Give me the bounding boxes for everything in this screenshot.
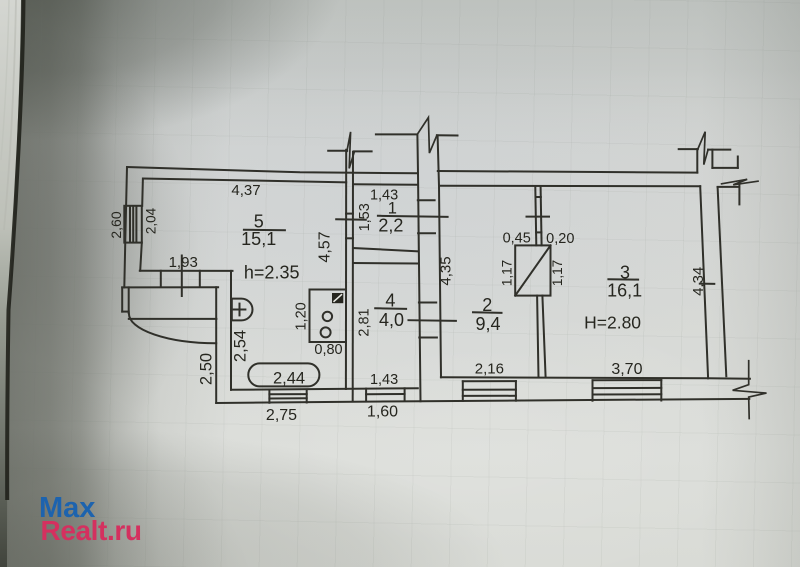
wall left inner lower: [140, 243, 142, 271]
tick left of room1 (1,53): [336, 218, 366, 220]
wall room5 bottom (1,93 line): [140, 270, 233, 272]
svg-text:h=2.35: h=2.35: [244, 262, 300, 282]
svg-text:3,70: 3,70: [611, 361, 642, 378]
book page edge strip: [0, 0, 21, 567]
kitchen stove box: [310, 290, 347, 343]
svg-text:2,16: 2,16: [475, 360, 504, 377]
thick wall rung 2: [418, 232, 435, 234]
door jamb tick left: [160, 271, 162, 287]
svg-text:1,93: 1,93: [169, 254, 198, 271]
break top-right: zigzag vertical: [698, 132, 708, 165]
svg-text:2,50: 2,50: [197, 353, 215, 385]
svg-text:2,75: 2,75: [266, 407, 297, 424]
wall top inner rooms 2-3: [441, 185, 700, 187]
fraction bar room4: [375, 307, 406, 310]
entry door swing arc: [129, 314, 216, 344]
furnace box: [515, 245, 550, 295]
break tick left of thick wall: [376, 133, 417, 135]
break top-right: inner corner line: [718, 186, 740, 188]
bottom inner wall rooms 2-3: [441, 377, 750, 379]
wall rooms2-3 east line upper: [541, 187, 542, 245]
break zigzag wall A-B: [347, 132, 355, 169]
break top-right: stub down-right: [711, 150, 713, 168]
svg-text:1,53: 1,53: [357, 203, 373, 231]
break top-right: tick right: [708, 149, 730, 151]
break bottom-right zigzag: [733, 361, 767, 419]
wall rooms1-4 west line B: [352, 152, 354, 402]
wall 2,50 porch side: [215, 287, 217, 403]
wall room1-room4 divider upper: [353, 248, 418, 251]
bottom outer wall: [216, 399, 749, 403]
svg-text:0,80: 0,80: [314, 342, 342, 358]
thick wall rung 4: [419, 337, 437, 339]
svg-text:15,1: 15,1: [241, 229, 276, 249]
svg-text:9,4: 9,4: [475, 314, 500, 334]
svg-text:4,35: 4,35: [438, 256, 455, 285]
thick wall rung 3: [419, 302, 436, 304]
svg-text:2,60: 2,60: [108, 211, 124, 238]
thick wall west line: [417, 135, 420, 401]
stove burner circle 1: [323, 312, 332, 321]
svg-text:4,0: 4,0: [379, 310, 404, 330]
break zigzag thick wall: [417, 118, 437, 154]
wall top outer (right section): [438, 171, 698, 173]
window W5 on left wall (2,60): [124, 206, 142, 243]
wall top inner room 1: [353, 183, 418, 186]
svg-text:4,37: 4,37: [231, 182, 260, 199]
svg-text:2,44: 2,44: [273, 369, 305, 387]
svg-text:1,20: 1,20: [294, 302, 310, 330]
break tick left of wall A: [328, 150, 347, 152]
stove oven black square: [332, 293, 343, 303]
bath/kitchen bottom inner wall: [231, 388, 418, 390]
break top-right: wall stub east: [712, 167, 737, 169]
door rung rooms2-3 bottom: [536, 231, 541, 233]
porch top wall: [122, 286, 218, 288]
wall rooms1-4 west line A: [345, 150, 347, 389]
furnace diagonal: [515, 245, 550, 295]
leader line room1 (2,2): [378, 216, 448, 217]
wall top inner room 5: [143, 179, 346, 183]
svg-text:2,54: 2,54: [232, 330, 250, 362]
svg-text:1,60: 1,60: [367, 404, 398, 421]
break top-right: zigzag horizontal: [722, 179, 758, 185]
break top-right: stub down-left: [696, 149, 698, 173]
svg-text:2,81: 2,81: [357, 308, 373, 336]
door rung room1 west top: [346, 213, 353, 215]
wall left outer: [124, 167, 127, 287]
porch left pilaster: [122, 287, 129, 312]
book spine shadow line: [7, 0, 23, 500]
dimension tick 1,93: [181, 256, 183, 297]
svg-text:16,1: 16,1: [607, 281, 642, 301]
svg-text:1,17: 1,17: [500, 260, 515, 286]
break top-right: tick left: [679, 148, 698, 150]
thick wall east line: [438, 135, 441, 377]
door jamb tick right: [199, 271, 201, 287]
wall left inner upper: [141, 179, 144, 206]
svg-text:Realt.ru: Realt.ru: [41, 515, 142, 546]
window WD (3,70): [593, 380, 662, 401]
svg-text:4,57: 4,57: [317, 231, 334, 262]
svg-text:4: 4: [385, 290, 395, 310]
window WA (2,75): [269, 390, 306, 403]
leader line rooms4-2: [409, 319, 456, 322]
bathtub (2,44): [248, 363, 319, 386]
washbasin cross: [234, 304, 246, 316]
washbasin: [232, 299, 253, 321]
svg-text:0,20: 0,20: [546, 231, 574, 247]
svg-text:2,04: 2,04: [143, 207, 158, 234]
break tick right of thick wall: [437, 134, 458, 136]
wall room1-room4 divider lower: [353, 262, 418, 265]
door rung room1 west bottom: [346, 237, 353, 239]
wall rooms2-3 east line lower: [542, 296, 545, 378]
wall right inner: [700, 186, 708, 378]
svg-text:3: 3: [620, 263, 630, 283]
break top-right: stub vertical small: [737, 157, 739, 168]
wall rooms2-3 west line upper: [535, 187, 536, 245]
wall top outer (left section): [127, 167, 418, 173]
stove burner circle 2: [321, 327, 331, 337]
fraction bar room2: [473, 311, 502, 314]
thick wall rung 1: [418, 199, 435, 201]
porch slab line: [129, 318, 217, 320]
fraction bar room3: [608, 278, 638, 280]
door rung rooms2-3 top: [536, 196, 541, 198]
window WC (2,16): [463, 381, 516, 401]
svg-text:H=2.80: H=2.80: [584, 313, 641, 333]
svg-text:2,2: 2,2: [378, 215, 403, 235]
fraction bar room5: [244, 229, 285, 231]
wall right outer: [718, 187, 727, 376]
tick right wall room3: [700, 283, 715, 285]
svg-text:2: 2: [482, 295, 492, 315]
svg-text:1,43: 1,43: [370, 372, 398, 388]
dimension tick rooms2-3 wall: [527, 216, 550, 218]
svg-text:4,34: 4,34: [690, 267, 707, 296]
wall rooms2-3 west line lower: [537, 296, 538, 378]
svg-text:1,17: 1,17: [550, 260, 565, 286]
wall 2,54 bath side: [230, 271, 232, 390]
svg-text:0,45: 0,45: [503, 231, 531, 247]
break top-right: stub after zigzag: [738, 184, 740, 205]
break tick right of wall B: [354, 150, 372, 152]
window WB (1,60): [366, 388, 405, 401]
